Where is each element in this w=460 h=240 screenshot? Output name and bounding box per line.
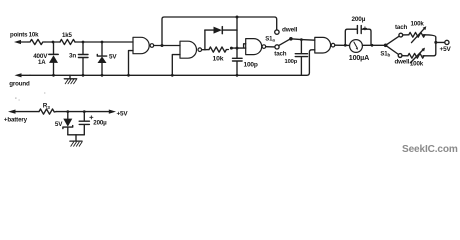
resistor R3 [39,109,56,114]
paper speckles [15,93,45,101]
wire: U1a output [154,45,180,47]
wire: U2b output to meter [335,44,350,46]
terminal: points input arrow [14,40,28,44]
wire: RC node to U2a inputs [231,44,245,48]
svg-text:100p: 100p [244,61,258,68]
wire: ground rail [30,50,315,76]
svg-text:10k: 10k [29,31,39,38]
meter M1 [350,40,363,53]
node: U1a output junction [161,44,164,47]
svg-text:200µ: 200µ [93,119,107,126]
svg-text:+battery: +battery [4,117,28,124]
svg-text:tach: tach [395,24,407,31]
zener diode Z2 5V [63,112,73,135]
potentiometer 100k (dwell) [402,48,425,63]
label "+" of C4 [363,27,366,30]
svg-text:SeekIC.com: SeekIC.com [402,144,458,155]
wire: feedback line to top [162,17,277,46]
svg-text:S1b: S1b [380,52,390,58]
label "+" of C5 [90,116,93,119]
node: battery rail dots [66,110,69,113]
svg-text:points: points [10,31,28,38]
switch S1b [384,33,403,57]
resistor 10k (points lead) [28,39,45,44]
svg-text:+5V: +5V [117,110,129,117]
potentiometer 100k (tach) [403,26,427,42]
capacitor C1 3n [78,42,88,75]
NAND gate U1a [133,37,154,53]
wire: meter to S1b [362,44,384,46]
terminal: +battery arrow [8,110,39,114]
svg-text:tach: tach [274,50,286,57]
wire: top rail 45-60 [45,41,60,43]
diode D1 400V 1A [49,42,58,75]
capacitor C4 200µ bridge [345,26,371,46]
wire: parallel branch left riser [204,30,206,50]
NAND gate U2a [246,39,266,55]
ground symbol (chassis hatch) [64,75,76,84]
zener diode Z1 5V [97,42,106,75]
wire: U1b output to parallel RC [202,49,205,51]
capacitor C5 200µ [79,112,89,135]
wire: U1b lower input to ground rail [172,55,180,76]
ground symbol (battery) [70,135,82,147]
switch S1a [275,30,293,49]
wire: feedback drop to U2b output node [236,17,238,48]
capacitor C3 100p [295,40,307,76]
svg-text:R3: R3 [43,103,50,111]
resistor 1k5 [60,39,75,44]
wire: pots join to +5V tap [423,35,436,56]
NAND gate U2b [315,37,335,53]
svg-text:1k5: 1k5 [62,32,72,39]
svg-text:200µ: 200µ [352,16,366,23]
wire: S1a pole to U3 input [291,38,302,41]
svg-text:dwell: dwell [395,58,410,65]
wire: zener/cap bottom join [68,134,85,136]
capacitor C2 100p [233,48,243,75]
svg-text:100µA: 100µA [349,54,369,62]
wire: battery rail [56,111,110,113]
svg-text:100k: 100k [410,61,424,68]
svg-text:dwell: dwell [282,26,298,33]
svg-text:5V: 5V [55,121,63,128]
svg-text:3n: 3n [69,53,76,60]
diode D2 [205,27,237,34]
wire: U2a output to S1a [266,46,275,48]
svg-text:10k: 10k [213,55,224,62]
svg-text:+5V: +5V [440,46,452,53]
NAND gate U1b [180,41,202,58]
resistor 10k (timing) [209,47,228,52]
terminal +5V [436,40,449,44]
terminal: ground arrow [15,73,31,77]
node: top rail junction dots [52,41,55,44]
svg-text:ground: ground [9,80,30,87]
svg-text:5V: 5V [109,54,117,61]
node: junction dots at RC output [230,47,233,50]
terminal: +5V output arrow [109,110,116,114]
svg-text:100p: 100p [285,59,298,65]
node: ground rail junction dots [52,74,55,77]
svg-text:1A: 1A [38,59,46,66]
wire: top rail 75-133 [75,41,133,43]
wire: U1a lower input to ground rail [129,51,134,76]
svg-text:100k: 100k [411,20,425,27]
node: feedback junction dot [236,16,239,19]
svg-text:S1a: S1a [265,37,275,43]
